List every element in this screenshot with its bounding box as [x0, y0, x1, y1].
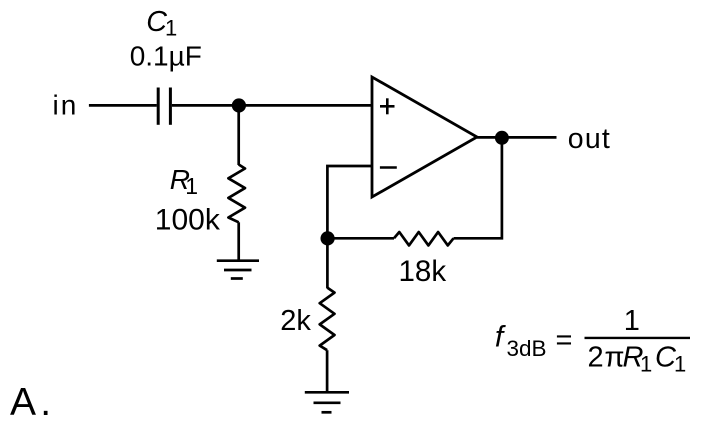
resistor 2k	[320, 288, 335, 351]
wire: in lead	[89, 104, 157, 107]
node: output junction	[495, 131, 509, 145]
resistor 18k	[394, 232, 454, 245]
op-amp U1	[372, 77, 477, 197]
node: feedback junction	[321, 231, 335, 245]
svg-text:2k: 2k	[280, 305, 311, 337]
wire: C1 to op-amp + input	[172, 104, 372, 107]
svg-text:out: out	[568, 123, 611, 155]
svg-text:1: 1	[674, 352, 686, 377]
label A.	[10, 381, 51, 424]
svg-text:1: 1	[624, 305, 640, 337]
svg-text:100k: 100k	[155, 204, 221, 237]
svg-text:2: 2	[588, 342, 604, 374]
wire: − input to feedback node	[327, 166, 372, 238]
svg-text:A: A	[10, 381, 36, 424]
op-amp − input symbol	[380, 166, 397, 169]
label C1	[146, 6, 177, 41]
resistor R1	[228, 165, 245, 223]
svg-text:π: π	[605, 342, 625, 374]
wire: R1 to ground	[237, 222, 240, 260]
fraction bar	[585, 337, 691, 339]
ground (R1)	[217, 261, 259, 279]
svg-text:=: =	[556, 325, 573, 357]
capacitor C1	[158, 88, 170, 125]
svg-text:f: f	[495, 321, 506, 354]
svg-text:18k: 18k	[399, 255, 447, 288]
svg-text:1: 1	[640, 352, 652, 377]
ground (2k)	[305, 392, 349, 412]
wire: junction to 2k	[326, 238, 329, 288]
wire: op-amp output	[477, 136, 557, 139]
svg-text:1: 1	[185, 173, 198, 199]
svg-text:3dB: 3dB	[507, 336, 547, 361]
op-amp + input symbol	[380, 98, 395, 114]
label R1	[170, 164, 198, 199]
svg-text:.: .	[40, 381, 51, 424]
formula f3dB = 1/(2πR1C1)	[495, 305, 686, 377]
wire: 2k to ground	[326, 350, 329, 392]
wire: junction to R1	[237, 106, 240, 166]
svg-text:1: 1	[165, 15, 177, 40]
wire: 18k to output	[454, 138, 502, 239]
node: input junction	[232, 98, 246, 112]
svg-text:in: in	[53, 90, 79, 121]
wire: junction to 18k	[327, 237, 394, 240]
svg-text:0.1µF: 0.1µF	[130, 41, 202, 72]
